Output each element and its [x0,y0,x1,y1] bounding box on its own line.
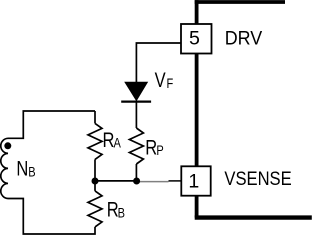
label RB [107,198,119,221]
pin box 5 [181,24,212,54]
pin box 1 [181,166,210,195]
label RP [145,137,157,160]
label RA [103,129,115,152]
svg-text:5: 5 [189,27,200,49]
wire: DRV pin to diode corner [136,43,181,82]
resistor RB zigzag [88,191,102,227]
label VF [155,69,166,92]
junction node A [92,178,99,185]
wire: transformer bottom to RB bottom [8,199,95,235]
svg-text:A: A [114,135,122,150]
svg-text:R: R [145,137,157,160]
junction wire RA-RP (black) [95,180,136,182]
IC outline top horizontal (thick) [195,0,285,4]
wire: diode to RP [135,102,137,128]
diode cathode bar [121,100,151,102]
resistor RP zigzag [129,128,143,164]
net wire to VSENSE (gray) [136,181,168,183]
svg-text:B: B [118,205,125,220]
svg-text:R: R [103,129,115,152]
pin stub VSENSE [169,180,182,182]
wire: transformer top to loop corner [8,111,95,138]
resistor RB top lead [94,181,96,191]
svg-text:F: F [167,76,174,91]
junction node B [133,178,140,185]
svg-text:VSENSE: VSENSE [224,169,291,190]
svg-text:V: V [155,69,166,92]
diode VF (anode triangle) [125,82,147,100]
label NB [16,158,28,181]
svg-text:B: B [28,164,35,179]
svg-text:P: P [156,143,163,158]
resistor RA top lead [94,111,96,123]
svg-text:1: 1 [188,171,199,193]
IC outline vertical (thick) [195,0,199,218]
resistor RA zigzag [88,123,102,159]
polarity dot [4,142,11,149]
IC outline bottom horizontal (thick) [195,215,312,219]
resistor RA bottom lead [94,159,96,181]
svg-text:N: N [16,158,28,181]
svg-text:DRV: DRV [225,28,263,49]
resistor RP bottom lead [135,164,137,181]
inductor NB winding [1,138,8,198]
